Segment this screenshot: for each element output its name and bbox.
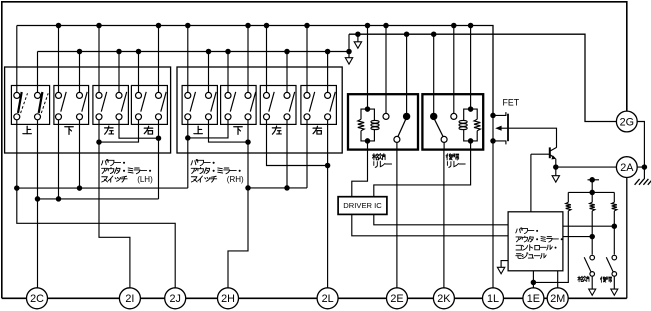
wire retract relay coil pin from bus A [367,26,369,95]
return relay contact NO pin [433,94,435,113]
node LH column 6 bus junction [116,49,122,55]
wire RH col7 down [306,120,308,188]
wire bus C tap stub [357,34,359,42]
retract relay contact NO (closed) [403,113,410,120]
label retract relay [372,154,385,160]
connector 1L [483,288,504,309]
connector 2G [616,111,637,132]
node 1E junction [531,280,537,286]
switch unit box LH-左 [93,86,128,125]
retract relay armature [398,119,406,136]
switch arm RH-上-1 [190,92,195,112]
node H2 at retract switch column [589,234,595,240]
node H1 at return switch column [612,223,618,229]
wire module right H2 [563,236,592,238]
node LH column 7 bus junction [136,49,142,55]
switch arm RH-左-2 [289,92,294,112]
switch contact RH-下-1 bottom [225,114,231,120]
node RH column 2 bus junction [206,49,212,55]
connector 2A [616,157,637,178]
node RH column 4 bus junction [245,23,251,29]
node W5a at 2L column [325,163,331,169]
svg-text:2I: 2I [125,293,134,305]
switch contact RH-上-1 top [185,92,191,98]
node LH column 8 bus junction [156,23,162,29]
return relay contact NC pin [453,94,455,113]
retract relay contact NC pin [385,94,387,113]
wire LH col7 to col5 link [99,120,139,142]
node bus B end [346,49,352,55]
wire module stub to arrow [501,261,508,268]
node LH column 5 bus junction [96,23,102,29]
wire 2A right to ground [637,167,644,179]
wire LH col5 down to 2I [99,120,130,288]
return relay contact NO (closed) [430,113,437,120]
node row1 col4 [77,185,83,191]
wire 2H jog [228,188,248,288]
svg-text:FET: FET [503,97,520,107]
wire LH column 1 from bus [16,26,18,93]
node ground tap [642,164,648,170]
svg-text:2J: 2J [169,293,180,305]
switch contact LH-左-2 top [116,92,122,98]
label RH 上 [194,126,202,133]
switch contact LH-右-1 bottom [136,114,142,120]
switch contact RH-左-1 top [264,92,270,98]
switch contact RH-上-1 bottom [185,114,191,120]
node row2 col2 [35,196,41,202]
switch contact RH-下-2 top [245,92,251,98]
node RH column 6 bus junction [284,49,290,55]
wire RH column 8 from bus [327,52,329,93]
wire emitter down [555,159,557,167]
wire RH column 7 from bus [306,26,308,93]
return relay contact NC [451,113,457,119]
node bus C retract NO [404,31,410,37]
wire RH col6 down [286,120,288,188]
node RH column 7 bus junction [304,23,310,29]
node return coil bottom [468,138,474,144]
switch contact RH-右-2 bottom [325,114,331,120]
wire LH column 5 from bus [98,26,100,93]
switch arm LH-上-1 (closed) [18,92,22,113]
node row1 col1 [14,185,20,191]
arrow continuation below bus C tap [354,42,361,49]
node bus C tap [355,31,361,37]
wire RH col8 down to 2L [327,120,329,288]
power outer mirror switch LH box [5,67,171,153]
wire emitter node to 2A (W5b) [556,166,617,168]
wire FET gate to transistor collector [508,128,557,147]
connector 2K [433,288,454,309]
resistor R3 [613,192,615,202]
wire RH column 3 from bus [227,52,229,93]
switch contact RH-左-2 bottom [284,114,290,120]
wire return relay NC pin from bus A [453,26,455,95]
switch contact LH-右-2 top [156,92,162,98]
label power outer mirror switch RH [191,159,215,165]
switch arm RH-右-1 [309,92,314,112]
switch contact LH-左-2 bottom [116,114,122,120]
switch contact LH-下-1 bottom [56,114,62,120]
wire row1 LH commons [17,187,188,189]
wire LH col3 down [58,120,60,199]
wire LH column 2 from bus [37,52,39,93]
connector 2E [387,288,408,309]
switch arm LH-上-1 alternate (dashed) [21,93,28,113]
switch contact RH-右-1 bottom [304,114,310,120]
wire RH column 6 from bus [286,52,288,93]
label LH 上 [23,126,31,133]
wire LH column 4 from bus [79,52,81,93]
label control module [516,228,538,234]
resistor R2 [591,192,593,202]
node RH col4 link [245,139,251,145]
svg-text:DRIVER IC: DRIVER IC [343,201,382,210]
retract relay common contact [394,136,400,142]
switch arm LH-上-2 alternate (dashed) [41,93,48,113]
label return relay [446,154,459,160]
node W4 col4 [245,185,251,191]
retract switch (kakunou) [590,255,595,260]
return relay common contact [441,136,447,142]
label retract switch [578,276,589,282]
arrow continuation module left [497,267,504,274]
wire return relay NO pin from bus C [433,34,435,94]
bus C (relay rail to 2G) [349,34,616,121]
wire return coil to DRIVER IC [374,150,471,197]
switch contact RH-左-1 bottom [264,114,270,120]
wire RH col3 to col1 link [188,120,228,138]
node LH column 3 bus junction [56,23,62,29]
switch contact LH-上-1 bottom [14,114,20,120]
svg-text:2M: 2M [550,293,565,305]
switch unit box RH-右 [301,86,337,125]
node LH col8 left-right link [156,135,162,141]
switch unit box LH-上 [11,86,49,125]
retract relay coil pin to bus A [367,94,369,109]
return relay coil lead down [470,141,472,150]
transistor FET [493,112,506,115]
wire LH column 8 from bus [158,26,160,93]
node bus A retract coil [365,23,371,29]
switch contact LH-下-2 top [77,92,83,98]
switch contact LH-下-2 bottom [77,114,83,120]
resistor R1 [567,192,569,202]
switch arm LH-左-1 [101,92,106,112]
switch arm LH-下-1 [61,92,66,112]
driver IC U1 [338,197,387,215]
label return switch [600,277,611,283]
arrow continuation below bus B end [345,58,352,64]
switch contact RH-右-1 top [304,92,310,98]
switch contact LH-上-1 top [14,92,20,98]
power outer mirror switch RH box [177,67,342,153]
svg-text:1E: 1E [527,293,540,305]
return relay armature [435,119,444,136]
switch arm RH-下-1 [230,92,235,112]
retract relay common pin [396,142,398,149]
node W4 col6 [284,185,290,191]
bus B (second supply rail) [38,51,350,53]
switch arm RH-右-2 [330,92,335,112]
connector 2I [119,288,140,309]
return relay coil pin to bus A [470,94,472,109]
svg-text:2K: 2K [437,293,451,305]
switch contact RH-左-2 top [284,92,290,98]
switch arm LH-左-2 [121,92,126,112]
svg-text:2L: 2L [322,293,334,305]
ground (chassis) [635,179,640,185]
switch contact RH-右-2 top [325,92,331,98]
node bus A return coil [468,23,474,29]
wire transistor base from module [530,154,532,212]
retract relay contact NO pin [406,94,408,113]
svg-text:2H: 2H [221,293,235,305]
switch contact RH-下-2 bottom [245,114,251,120]
node retract coil bottom [365,138,371,144]
power outer mirror control module box [508,212,563,271]
switch unit box LH-下 [54,86,89,125]
wire LH column 6 from bus [118,52,120,93]
connector 2H [218,288,239,309]
switch contact LH-右-1 top [136,92,142,98]
wire RH col1 down joins row1 [187,120,189,188]
wire LH col1 down to node row1 [16,120,18,188]
switch contact LH-上-2 top [35,92,41,98]
wire return relay coil pin from bus A [470,26,472,95]
wire LH col6 to col8 link [119,120,159,138]
return relay box (fukki relay) [422,94,483,149]
wire module right H1 [563,225,614,227]
wire RH col5 to 2L column (W5a) [267,120,328,166]
switch unit box RH-左 [260,86,296,125]
switch contact LH-左-1 bottom [96,114,102,120]
node LH col5 link [96,139,102,145]
wire 1E node to sense resistor [533,211,568,283]
retract relay contact NC [383,113,389,119]
wire W4 mirror motor RH [248,187,307,189]
transistor Q1 (NPN) [549,147,551,158]
wire LH column 3 from bus [58,26,60,93]
wire bus A to FET drain/source [492,115,494,140]
node return coil top [468,106,474,112]
node bus A retract NC [383,23,389,29]
label RH 下 [234,127,242,135]
switch contact LH-右-2 bottom [156,114,162,120]
wire module to 1E [532,271,534,288]
node RH column 5 bus junction [264,23,270,29]
retract relay box (kakunou relay) [348,94,418,149]
wire retract coil to DRIVER IC [352,150,368,197]
switch contact RH-下-1 top [225,92,231,98]
svg-text:2G: 2G [620,116,634,128]
connector 2M [547,288,568,309]
return relay coil winding branch [464,109,471,141]
wire RH column 5 from bus [266,26,268,93]
retract relay coil winding branch [368,109,375,141]
switch arm RH-下-2 [250,92,255,112]
wire LH col8 down to row2 [158,120,160,199]
node bus A return NC [451,23,457,29]
node bus C return NO [431,31,437,37]
svg-text:2A: 2A [620,162,634,174]
terminal bar above resistors [588,179,600,181]
svg-text:(LH): (LH) [137,175,153,184]
wire RH column 4 from bus [247,26,249,93]
wire LH col4 down [79,120,81,188]
switch arm LH-下-2 [82,92,87,112]
node LH column 4 bus junction [77,49,83,55]
wire retract relay NO pin from bus C [406,34,408,94]
wire RH column 1 from bus [187,26,189,93]
label LH 下 [65,127,73,135]
label LH 左 [105,126,114,134]
switch arm RH-上-2 [211,92,216,112]
connector 2J [165,288,186,309]
wire LH column 7 from bus [138,52,140,93]
switch contact RH-上-2 top [206,92,212,98]
svg-text:2C: 2C [30,293,44,305]
switch arm LH-右-2 [161,92,166,112]
svg-text:(RH): (RH) [227,175,244,184]
label RH 右 [313,126,321,134]
svg-text:1L: 1L [487,293,499,305]
wire DRIVER IC out1 to module [374,214,508,224]
connector 2C [27,288,48,309]
wire LH col1 to 2J route [17,188,175,288]
return relay coil resistor branch [471,109,478,119]
switch contact LH-左-1 top [96,92,102,98]
wire ground bus bottom [2,297,627,299]
wire retract relay NC pin from bus A [385,26,387,95]
retract relay coil lead down [367,141,369,150]
return relay common pin [443,142,445,149]
wire emitter node stub [555,167,557,176]
wire 2G right to 2A right [637,122,644,168]
switch unit box RH-上 [182,86,217,125]
wire FET to 1L [492,141,494,288]
node FET drain tap [490,113,496,119]
wire module to 2M [557,271,559,288]
switch contact LH-上-2 bottom [35,114,41,120]
wire RH column 2 from bus [208,52,210,93]
label RH 左 [272,126,281,134]
node RH column 1 bus junction [185,23,191,29]
node retract coil top [365,106,371,112]
bus A (upper supply rail) [17,26,493,116]
wire resistor rail [568,191,614,193]
switch arm LH-右-1 [141,92,146,112]
arrow continuation below emitter node [552,176,559,183]
wire retract relay common to 2E [396,150,398,288]
label LH 右 [144,126,152,134]
node row2 col3 [56,196,62,202]
connector 2L [317,288,338,309]
connector 1E [523,288,544,309]
label power outer mirror switch LH [101,159,125,165]
switch unit box LH-右 [131,86,167,125]
node FET source tap [490,138,496,144]
wire RH col2 to col4 link [209,120,249,142]
wire row2 LH [38,198,159,200]
svg-text:2E: 2E [390,293,403,305]
node RH column 8 bus junction [325,49,331,55]
node RH col1 link [185,135,191,141]
switch contact RH-上-2 bottom [206,114,212,120]
switch unit box RH-下 [221,86,257,125]
switch arm RH-左-1 [269,92,274,112]
wire 2A to bottom bus (right side) [626,178,628,299]
switch contact LH-下-1 top [56,92,62,98]
node emitter junction [553,164,559,170]
wire DRIVER IC out2 to module [352,214,508,235]
return switch (fukki) [612,255,617,260]
wire return relay common to 2K [443,150,445,288]
retract relay coil resistor branch [361,109,368,119]
node RH column 3 bus junction [225,49,231,55]
node resistor rail center [589,190,595,196]
wire bus C to bus B end with arrow [348,34,350,58]
wire RH col4 down to W4 [247,120,249,188]
switch arm LH-上-2 (closed) [39,92,43,113]
wire LH col2 down to 2C [37,120,39,288]
